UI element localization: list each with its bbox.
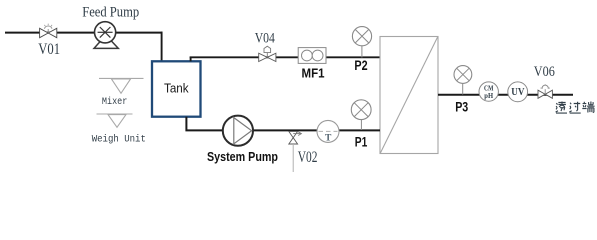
membrane module [380, 37, 438, 154]
label permeate side (drawn strokes) [556, 102, 595, 114]
label P1 [355, 135, 368, 151]
valve V04 [259, 46, 276, 61]
svg-text:V02: V02 [298, 149, 318, 166]
gauge P1 [351, 100, 371, 130]
label Weigh Unit [92, 133, 146, 145]
label V04 [255, 31, 276, 47]
label V01 [38, 41, 60, 58]
valve V01 [40, 24, 57, 38]
valve V02 [289, 131, 302, 144]
svg-text:Tank: Tank [164, 81, 189, 96]
wire permeate pipe right of membrane [438, 94, 573, 96]
pump Feed Pump [94, 22, 118, 49]
wire tank outlet stub up [190, 57, 192, 62]
svg-text:V04: V04 [255, 31, 276, 47]
mixer symbol [99, 78, 144, 93]
label Feed Pump [82, 4, 139, 20]
flow meter MF1 [298, 48, 326, 64]
wire feed line horizontal [5, 32, 163, 34]
weigh unit symbol [97, 114, 133, 127]
sensor CM/pH [479, 82, 498, 101]
svg-text:Weigh Unit: Weigh Unit [92, 133, 146, 145]
svg-text:Feed Pump: Feed Pump [82, 4, 139, 20]
svg-text:System Pump: System Pump [207, 150, 278, 164]
wire drain line below V02 [292, 144, 294, 172]
label Mixer [102, 96, 128, 108]
svg-text:P2: P2 [354, 58, 367, 74]
svg-text:V06: V06 [534, 64, 555, 80]
gauge P3 [454, 66, 472, 95]
wire feed line drop into tank [161, 32, 163, 62]
sensor UV [508, 82, 528, 102]
svg-text:V01: V01 [38, 41, 60, 58]
label V06 [534, 64, 555, 80]
pump System Pump [223, 116, 253, 146]
label P3 [455, 99, 468, 115]
wire top pipe to membrane [190, 56, 380, 58]
svg-text:P1: P1 [355, 135, 368, 151]
gauge T [317, 120, 339, 143]
label V02 [298, 149, 318, 166]
tank Tank [152, 61, 201, 116]
wire tank bottom outlet [186, 117, 380, 131]
svg-text:pH: pH [484, 91, 493, 100]
svg-text:T: T [325, 134, 332, 144]
svg-text:MF1: MF1 [302, 66, 325, 81]
gauge P2 [352, 27, 371, 58]
label System Pump [207, 150, 278, 164]
label MF1 [302, 66, 325, 81]
label P2 [354, 58, 367, 74]
valve V06 [538, 84, 552, 98]
svg-text:Mixer: Mixer [102, 96, 128, 108]
svg-text:P3: P3 [455, 99, 468, 115]
svg-text:UV: UV [511, 87, 525, 98]
